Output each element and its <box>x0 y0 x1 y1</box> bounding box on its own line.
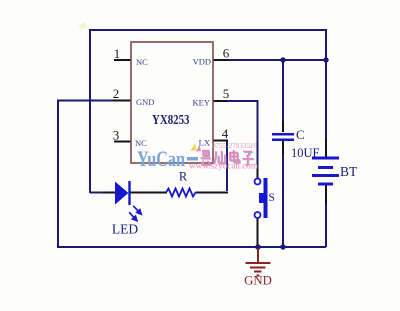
ground bar 2 <box>250 267 266 269</box>
wire capacitor upper <box>282 60 284 122</box>
svg-text:1: 1 <box>114 46 121 61</box>
smudge top left <box>78 22 88 30</box>
wire LED cathode to resistor <box>129 192 167 194</box>
battery BT plate long 2 <box>312 174 339 177</box>
LED cathode bar <box>128 181 130 205</box>
svg-text:0755-27933516: 0755-27933516 <box>212 142 257 150</box>
svg-text:C: C <box>296 127 305 142</box>
svg-text:YX8253: YX8253 <box>152 113 190 128</box>
junction dot cap/ground rail <box>280 244 285 249</box>
wire capacitor top lead <box>282 121 284 132</box>
svg-text:VDD: VDD <box>193 57 211 67</box>
wire pin6 VDD row <box>228 59 326 61</box>
wire LED anode <box>90 192 104 194</box>
svg-text:YuCan: YuCan <box>137 146 185 171</box>
svg-text:R: R <box>179 170 188 184</box>
ground symbol stub <box>257 248 259 263</box>
junction dot battery/VDD <box>323 57 328 62</box>
wire resistor to LX corner <box>196 192 228 194</box>
pin 5 lead <box>213 100 227 102</box>
svg-text:2: 2 <box>113 86 120 101</box>
svg-text:KEY: KEY <box>193 98 210 108</box>
wire switch bottom lead <box>257 218 259 247</box>
wire battery lower <box>325 203 327 247</box>
wire battery bottom lead black <box>325 184 327 204</box>
svg-text:S: S <box>269 192 275 204</box>
wire battery top lead <box>325 139 327 157</box>
svg-text:LED: LED <box>112 222 138 237</box>
pin 6 lead <box>213 59 229 61</box>
battery BT plate short 1 <box>318 166 333 169</box>
LED light arrow 2 <box>129 212 137 220</box>
op-amp U1 YX8253 IC body <box>131 42 213 163</box>
switch S top contact circle <box>255 179 261 185</box>
LED D1 triangle <box>115 182 129 205</box>
switch S bottom contact circle <box>255 212 261 218</box>
watermark <box>137 142 258 171</box>
pin 4 lead <box>213 140 228 142</box>
ground bar 3 <box>254 271 262 273</box>
switch S knob <box>259 193 264 203</box>
svg-text:www.szyucan.com: www.szyucan.com <box>189 161 258 171</box>
watermark chinese glyphs <box>201 151 254 166</box>
capacitor C plate top <box>272 133 294 136</box>
svg-text:BT: BT <box>340 164 358 179</box>
svg-text:6: 6 <box>223 46 230 61</box>
wire pin5 KEY to switch <box>226 101 258 167</box>
pin 3 lead <box>114 141 131 143</box>
wire pin2 GND net left loop <box>58 101 326 248</box>
junction dot switch/ground rail <box>255 244 261 250</box>
wire switch top lead <box>257 166 259 178</box>
pin 2 lead <box>113 100 131 102</box>
svg-text:4: 4 <box>222 126 229 141</box>
svg-text:LX: LX <box>199 138 210 148</box>
wire capacitor bottom lead <box>282 141 284 154</box>
ground bar 4 <box>257 275 260 277</box>
pin 1 lead <box>114 59 131 61</box>
switch S actuator bar <box>264 178 268 218</box>
wire pin4 LX vertical <box>226 141 228 192</box>
svg-text:5: 5 <box>223 86 230 101</box>
battery BT plate short 2 <box>318 183 333 186</box>
svg-text:NC: NC <box>136 57 148 67</box>
wire capacitor lower <box>282 153 284 247</box>
battery BT plate long 1 <box>312 157 339 160</box>
ground bar 1 <box>246 262 271 264</box>
svg-text:GND: GND <box>136 97 154 107</box>
svg-text:3: 3 <box>113 128 120 143</box>
wire top rail VDD net <box>90 30 326 193</box>
LED light arrow 1 <box>133 206 141 214</box>
svg-text:GND: GND <box>244 274 272 288</box>
resistor R zigzag <box>166 189 197 197</box>
wire LED anode lead black <box>103 192 116 194</box>
capacitor C plate bottom <box>272 138 294 141</box>
junction dot cap/VDD <box>280 57 285 62</box>
